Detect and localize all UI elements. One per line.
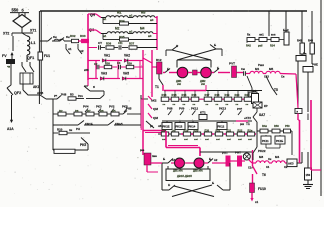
svg-text:R37: R37	[129, 42, 135, 46]
svg-text:C2: C2	[94, 62, 98, 66]
svg-text:M4: M4	[275, 155, 279, 159]
svg-text:PHT: PHT	[235, 151, 241, 155]
svg-text:R22: R22	[238, 128, 243, 132]
svg-text:ДB1 з0А: ДB1 з0А	[173, 170, 183, 173]
svg-text:A2: A2	[214, 158, 218, 162]
svg-text:рч: рч	[54, 95, 58, 98]
svg-text:R1б: R1б	[172, 93, 177, 97]
svg-text:R13: R13	[162, 93, 167, 97]
svg-text:R43: R43	[297, 39, 302, 43]
svg-text:R18: R18	[215, 93, 220, 97]
svg-text:Cм: Cм	[241, 67, 245, 71]
svg-text:B4: B4	[253, 89, 257, 93]
svg-text:R39: R39	[127, 62, 132, 66]
svg-text:R16: R16	[192, 93, 197, 97]
svg-text:PK14: PK14	[189, 125, 196, 129]
svg-text:R20: R20	[194, 128, 199, 132]
svg-text:AK3: AK3	[288, 162, 294, 166]
svg-text:R44: R44	[308, 39, 313, 43]
svg-text:XT1: XT1	[30, 29, 36, 33]
svg-text:PK5: PK5	[80, 143, 86, 147]
svg-text:VA5: VA5	[123, 72, 129, 76]
svg-text:P6: P6	[75, 109, 79, 113]
svg-text:M3: M3	[259, 155, 263, 159]
svg-text:R2: R2	[59, 109, 63, 113]
svg-text:C11: C11	[118, 41, 123, 45]
svg-text:R19: R19	[225, 93, 230, 97]
svg-text:R5: R5	[112, 109, 116, 113]
svg-text:ркб: ркб	[258, 44, 263, 48]
svg-text:M5: M5	[269, 67, 273, 71]
svg-text:R20: R20	[235, 93, 240, 97]
svg-text:VA3: VA3	[101, 72, 107, 76]
svg-text:коп: коп	[271, 34, 276, 37]
svg-text:T1: T1	[246, 122, 250, 126]
svg-text:PK12: PK12	[191, 107, 198, 111]
svg-text:PH5: PH5	[126, 107, 132, 111]
svg-text:з0л: з0л	[177, 83, 182, 86]
svg-text:Pпч: Pпч	[78, 94, 83, 98]
svg-text:PK3: PK3	[96, 105, 102, 109]
svg-text:R2я: R2я	[248, 128, 253, 132]
svg-text:M3: M3	[141, 11, 146, 15]
svg-text:PHE: PHE	[312, 63, 318, 67]
svg-text:VA2: VA2	[124, 54, 130, 58]
svg-text:лK2: лK2	[151, 99, 157, 103]
svg-text:R35: R35	[119, 35, 125, 39]
svg-text:л3: л3	[158, 124, 162, 128]
svg-text:R34: R34	[119, 19, 125, 23]
svg-text:R3: R3	[70, 93, 74, 97]
svg-text:R15: R15	[182, 93, 187, 97]
svg-text:QM: QM	[153, 107, 158, 111]
svg-text:PVT: PVT	[229, 62, 235, 66]
svg-text:R21: R21	[216, 128, 221, 132]
svg-text:R42: R42	[246, 44, 251, 48]
svg-text:QM: QM	[153, 116, 158, 120]
svg-text:рне: рне	[140, 149, 145, 152]
svg-text:PH8: PH8	[167, 107, 173, 111]
svg-text:PV4: PV4	[83, 105, 89, 109]
svg-text:Е21: Е21	[227, 128, 232, 132]
svg-text:R38: R38	[105, 62, 110, 66]
svg-text:PK1Б: PK1Б	[163, 125, 170, 129]
svg-text:Cн: Cн	[268, 158, 272, 161]
svg-text:рол: рол	[237, 107, 242, 111]
svg-text:R32: R32	[70, 34, 76, 38]
svg-text:Н: Н	[168, 183, 170, 187]
svg-text:QH: QH	[90, 13, 96, 17]
svg-text:R50: R50	[274, 124, 279, 128]
svg-text:R19: R19	[184, 128, 189, 132]
svg-text:T1: T1	[155, 85, 159, 89]
svg-text:PН: PН	[76, 127, 80, 131]
svg-text:л2: л2	[80, 49, 84, 53]
svg-text:КР: КР	[264, 104, 268, 108]
svg-text:чв: чв	[7, 66, 11, 69]
svg-text:R33: R33	[80, 34, 86, 38]
svg-text:T5: T5	[274, 88, 278, 92]
svg-text:KT1: KT1	[200, 111, 206, 115]
svg-text:пме: пме	[152, 155, 157, 158]
svg-text:L1: L1	[31, 41, 35, 45]
svg-text:лп1: лп1	[259, 33, 264, 37]
svg-text:QF1: QF1	[27, 56, 34, 60]
svg-text:PH8: PH8	[61, 93, 67, 97]
svg-text:QF2: QF2	[14, 91, 21, 95]
svg-text:M4: M4	[140, 27, 145, 31]
svg-text:M1: M1	[117, 11, 122, 15]
svg-text:Pшя: Pшя	[258, 63, 264, 67]
svg-text:Cя: Cя	[281, 75, 285, 79]
svg-text:550: 550	[12, 7, 20, 12]
svg-text:PV9: PV9	[179, 107, 185, 111]
svg-text:Р50: Р50	[285, 124, 290, 128]
svg-text:PK13: PK13	[176, 125, 183, 129]
svg-text:бн: бн	[53, 35, 57, 39]
svg-text:A1A: A1A	[7, 127, 14, 131]
svg-text:PK22: PK22	[258, 149, 266, 153]
svg-text:FU1: FU1	[44, 54, 50, 58]
svg-text:R24: R24	[270, 44, 275, 48]
svg-text:з0л: з0л	[201, 83, 206, 86]
svg-text:к36: к36	[84, 68, 89, 72]
svg-text:R36: R36	[106, 42, 112, 46]
svg-text:Pa: Pa	[303, 52, 307, 56]
svg-text:б: б	[93, 85, 95, 89]
svg-text:C3: C3	[117, 61, 121, 65]
svg-text:M1: M1	[255, 67, 259, 71]
svg-text:VA1: VA1	[104, 54, 110, 58]
svg-text:PV2: PV2	[109, 105, 115, 109]
svg-text:1гб: 1гб	[172, 128, 177, 132]
svg-text:PK1Б: PK1Б	[276, 139, 283, 143]
svg-text:AK1: AK1	[33, 85, 40, 89]
svg-text:Е20: Е20	[205, 128, 210, 132]
svg-text:пн: пн	[69, 129, 73, 132]
svg-text:M2: M2	[115, 27, 120, 31]
svg-text:PVT: PVT	[222, 151, 228, 155]
svg-text:R21: R21	[245, 93, 250, 97]
svg-text:PK13: PK13	[219, 107, 226, 111]
svg-text:R17: R17	[205, 93, 210, 97]
svg-text:R12: R12	[156, 58, 162, 62]
svg-text:+KT2: +KT2	[244, 116, 251, 120]
svg-text:FU10: FU10	[258, 187, 266, 191]
svg-text:XT2: XT2	[3, 32, 9, 36]
svg-text:AKб: AKб	[37, 91, 43, 95]
svg-text:SA7: SA7	[259, 113, 265, 117]
svg-text:FV: FV	[2, 54, 7, 58]
svg-text:R6: R6	[100, 109, 104, 113]
svg-text:з1: з1	[255, 200, 258, 204]
svg-text:R4я: R4я	[262, 124, 267, 128]
svg-text:л1: л1	[68, 47, 72, 51]
svg-text:PK11: PK11	[262, 139, 269, 143]
svg-text:PK12: PK12	[218, 125, 225, 129]
svg-text:R7: R7	[87, 109, 91, 113]
svg-text:ДB1Л-ДB2Л: ДB1Л-ДB2Л	[177, 174, 192, 178]
svg-text:CY: CY	[98, 41, 102, 45]
